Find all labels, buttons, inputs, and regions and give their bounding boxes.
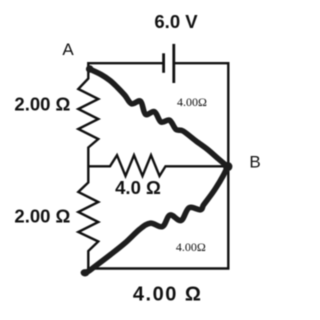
svg-text:4.0 Ω: 4.0 Ω [115, 177, 161, 198]
svg-text:A: A [62, 40, 74, 59]
svg-text:2.00 Ω: 2.00 Ω [14, 94, 70, 115]
svg-text:2.00 Ω: 2.00 Ω [14, 206, 70, 227]
svg-text:4.00Ω: 4.00Ω [177, 95, 207, 109]
svg-text:6.0 V: 6.0 V [154, 11, 198, 32]
svg-text:4.00Ω: 4.00Ω [176, 240, 206, 254]
svg-text:4.00 Ω: 4.00 Ω [133, 283, 203, 305]
svg-text:B: B [249, 153, 260, 172]
